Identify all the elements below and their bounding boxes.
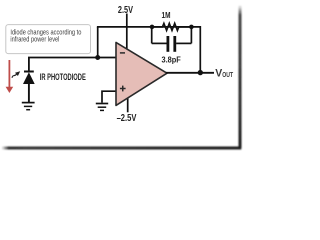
- resistor R1: [152, 23, 191, 30]
- wire: non-inverting input: [102, 91, 117, 102]
- node: inverting input junction: [95, 55, 100, 60]
- svg-text:IR PHOTODIODE: IR PHOTODIODE: [40, 72, 86, 82]
- svg-text:–2.5V: –2.5V: [117, 113, 137, 124]
- wire: photodiode cathode to inverting input: [29, 58, 117, 72]
- ground (photodiode): [22, 103, 35, 110]
- ground (non-inverting input): [96, 104, 108, 111]
- capacitor C1: [152, 27, 192, 52]
- supply +2.5V: [118, 5, 133, 51]
- svg-text:3.8pF: 3.8pF: [162, 55, 182, 64]
- photon squiggle arrow: [12, 71, 20, 78]
- svg-text:infrared power level: infrared power level: [10, 34, 59, 43]
- node: resistor right junction: [189, 25, 194, 30]
- node: output junction: [198, 70, 203, 75]
- label: VOUT: [215, 68, 233, 80]
- photodiode D1: [23, 72, 35, 103]
- wire: feedback left vertical: [97, 27, 99, 58]
- node: resistor left junction: [150, 25, 155, 30]
- red arrow: infrared power annotation: [6, 60, 14, 93]
- shadow (figure frame): [2, 5, 242, 150]
- svg-text:V: V: [215, 68, 222, 80]
- annotation box: Idiode note: [6, 25, 91, 54]
- wire: output: [166, 72, 214, 74]
- supply -2.5V: [117, 96, 137, 124]
- op-amp U1: [116, 42, 167, 105]
- svg-text:OUT: OUT: [222, 70, 233, 79]
- svg-text:2.5V: 2.5V: [118, 5, 133, 16]
- wire: feedback top rail: [97, 27, 200, 73]
- svg-text:1M: 1M: [162, 11, 171, 20]
